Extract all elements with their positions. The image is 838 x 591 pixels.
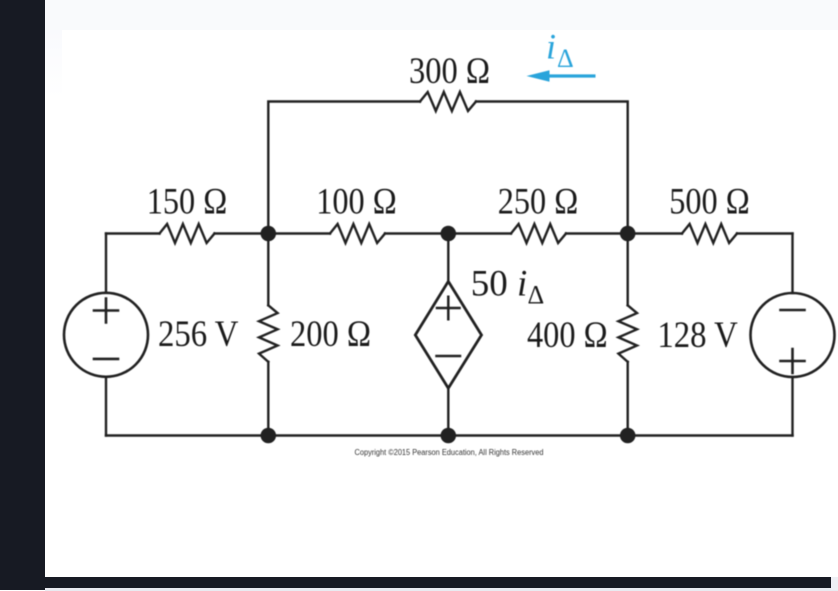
page edge shading xyxy=(45,30,62,98)
node junction top-right xyxy=(620,226,636,242)
minus sign of dependent source xyxy=(437,355,461,358)
voltage source 256V circle xyxy=(64,293,148,377)
label 400 ohm xyxy=(527,315,608,356)
wire dependent source lower lead xyxy=(447,388,449,435)
wire 400ohm upper lead xyxy=(627,234,629,306)
wire dependent source upper lead xyxy=(447,234,449,282)
wire right leg lower xyxy=(791,377,793,436)
top light strip xyxy=(45,0,838,30)
label 128 V xyxy=(657,315,738,356)
bottom light strip xyxy=(45,588,838,591)
svg-text:Δ: Δ xyxy=(557,44,574,73)
wire between 150ohm and 100ohm xyxy=(215,232,331,234)
wire middle row right segment xyxy=(737,232,793,234)
resistor R 100ohm xyxy=(330,224,385,243)
bottom dark bar xyxy=(45,577,831,588)
wire 400ohm lower lead xyxy=(627,362,629,436)
label 300 ohm xyxy=(409,51,490,92)
svg-text:250 Ω: 250 Ω xyxy=(498,182,579,223)
label 250 ohm xyxy=(498,182,579,223)
node junction bottom-middle xyxy=(441,428,457,444)
copyright notice xyxy=(355,448,544,457)
resistor R 250ohm xyxy=(511,224,566,243)
label 150 ohm xyxy=(147,182,228,223)
wire middle row left segment xyxy=(106,232,160,234)
minus sign of 256V xyxy=(94,358,118,361)
resistor R 400ohm xyxy=(618,305,637,362)
resistor 300ohm xyxy=(420,92,476,111)
resistor R 500ohm xyxy=(682,224,737,243)
node junction top-middle xyxy=(441,226,457,242)
svg-text:400 Ω: 400 Ω xyxy=(527,315,608,356)
plus sign of 256V xyxy=(94,299,118,323)
node junction top-left xyxy=(261,226,277,242)
label 100 ohm xyxy=(316,182,397,223)
svg-text:150 Ω: 150 Ω xyxy=(147,182,228,223)
svg-text:100 Ω: 100 Ω xyxy=(316,182,397,223)
plus sign of dependent source xyxy=(437,297,460,319)
svg-text:300 Ω: 300 Ω xyxy=(409,51,490,92)
svg-text:500 Ω: 500 Ω xyxy=(669,182,750,223)
svg-text:128 V: 128 V xyxy=(657,315,738,356)
wire left leg lower xyxy=(105,377,107,436)
label 200 ohm xyxy=(290,314,371,355)
wire 200ohm lower lead xyxy=(267,362,269,436)
wire 200ohm upper lead xyxy=(267,234,269,306)
svg-text:50 i: 50 i xyxy=(471,264,528,305)
plus sign of 128V xyxy=(781,349,805,373)
svg-text:i: i xyxy=(546,27,556,67)
voltage source 128V circle xyxy=(751,293,835,377)
left dark sidebar xyxy=(0,0,45,590)
bottom-right light patch xyxy=(831,577,838,590)
wire right leg upper xyxy=(791,234,793,294)
current arrow i-delta (cyan) xyxy=(527,70,596,82)
minus sign of 128V xyxy=(781,309,805,312)
wire between 250ohm and 500ohm xyxy=(566,232,682,234)
node junction bottom-right xyxy=(620,428,636,444)
label 256 V xyxy=(158,314,239,355)
label i-delta xyxy=(546,27,574,74)
svg-text:256 V: 256 V xyxy=(158,314,239,355)
wire top branch right vertical xyxy=(476,102,628,234)
svg-text:Δ: Δ xyxy=(528,281,545,310)
node junction bottom-left xyxy=(261,428,277,444)
dependent source diamond 50i xyxy=(415,281,481,388)
wire between 100ohm and 250ohm xyxy=(385,232,511,234)
wire top branch left vertical xyxy=(268,102,420,234)
svg-text:Copyright ©2015 Pearson Educat: Copyright ©2015 Pearson Education, All R… xyxy=(355,448,544,457)
wire left leg upper xyxy=(105,234,107,293)
svg-text:200 Ω: 200 Ω xyxy=(290,314,371,355)
label 500 ohm xyxy=(669,182,750,223)
resistor R 150ohm xyxy=(160,224,215,243)
wire bottom rail xyxy=(106,434,793,436)
label 50 i-delta xyxy=(471,264,544,310)
resistor R 200ohm xyxy=(259,305,278,362)
